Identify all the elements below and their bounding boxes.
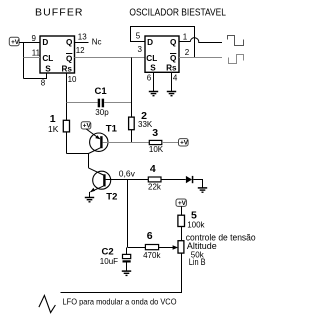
wire T1 base to 10K [103,142,150,144]
pin number 4 [173,73,178,82]
wire potentiometer bottom down and left (LFO input) [61,253,182,292]
IC U1 label Q [66,38,73,47]
svg-text:10K: 10K [149,145,164,154]
pin number 5 [136,32,141,41]
label T1 [106,123,118,134]
transistor T2 base bar [103,174,105,186]
svg-text:Q: Q [170,38,177,47]
wire U2 Qbar output (pin 2) [179,57,222,59]
ground under T2 emitter [85,198,94,202]
IC U2 label Qbar [170,54,177,64]
svg-text:Q: Q [66,38,73,47]
label C1 [95,86,108,97]
svg-text:2: 2 [185,48,190,57]
svg-text:Nc: Nc [92,37,102,46]
transistor T2 collector lead [89,168,104,175]
pin number 12 [76,46,85,55]
wire U2 Rs pin 4 to ground [171,72,173,91]
wire R2 bottom to base line [131,130,133,143]
IC U2 label Rs [166,63,177,72]
svg-text:T2: T2 [106,192,117,203]
label 50k [191,251,205,260]
title OSCILADOR BIESTAVEL [129,7,226,18]
power +V supply box (T1 emitter) [81,122,91,130]
svg-text:+V: +V [11,39,20,46]
svg-text:22k: 22k [148,183,162,192]
diode D1 [186,176,193,183]
svg-text:0,6v: 0,6v [119,168,136,178]
waveform triangle wave LFO [39,295,56,312]
pin number 9 [32,34,37,43]
svg-text:+V: +V [83,123,92,130]
svg-text:T1: T1 [106,123,118,134]
pin number 6 [147,73,152,82]
label 30p [95,108,109,117]
svg-text:30p: 30p [95,108,109,117]
svg-text:D: D [42,38,48,47]
svg-text:S: S [150,63,156,72]
svg-text:8: 8 [41,78,46,87]
svg-text:9: 9 [32,34,37,43]
capacitor C2 bottom plate [123,260,131,262]
svg-text:4: 4 [173,73,178,82]
svg-text:3: 3 [152,127,158,139]
IC U2 bistable oscillator body [145,36,179,72]
wire U1 Rs pin 10 down to R1 [66,73,68,120]
wire feedback loop U2 D (pin5) over top to Qbar line [131,27,195,58]
ground under U2 pin 6 [149,92,158,96]
svg-text:4: 4 [150,163,156,175]
pin number 2 [185,48,190,57]
wire junction to 470k [128,247,146,249]
title BUFFER [35,6,84,18]
wire 0,6v node down to C2 junction [127,180,129,248]
svg-text:470k: 470k [143,251,161,260]
potentiometer Altitude 50k body [178,241,184,253]
node Nc label [92,37,102,46]
svg-text:S: S [45,64,51,73]
wire 22k to diode [161,179,186,181]
wire +V to 100k [181,206,183,215]
wire R1 bottom to T1 collector node [67,153,89,155]
label 6 [147,230,153,242]
resistor R5 100k body [178,215,185,226]
svg-text:LFO para modular a onda do VCO: LFO para modular a onda do VCO [63,297,177,307]
wire U2 S pin 6 to ground [153,72,155,91]
wire T2 base to 22k [106,179,149,181]
svg-text:C2: C2 [102,246,114,257]
svg-text:3: 3 [138,45,143,54]
transistor T1 PNP circle [90,133,108,151]
svg-text:1: 1 [183,33,188,42]
IC U1 label Rs [62,64,73,73]
wire U1 Qbar (pin 12) to U2 CL (pin 3) [75,57,146,59]
wire 10K to +V [162,142,179,144]
label 2 [141,110,147,122]
pin number 13 [78,33,87,42]
label 0,6v [119,168,136,178]
ground under U2 pin 4 [167,92,176,96]
waveform square wave Q [228,36,244,46]
power +V supply box (right of 10K) [179,139,189,147]
label 5 [191,210,197,222]
wire 100k to potentiometer [181,227,183,241]
wire 470k to potentiometer wiper arrow [159,245,178,250]
svg-text:10: 10 [68,75,77,84]
wire U2 Q output (pin 1) with hop [179,38,222,43]
pin number 1 [183,33,188,42]
resistor R3 10K body [149,140,162,144]
label 10K [149,145,164,154]
label C2 [102,246,114,257]
capacitor C2 wire from junction [126,248,128,255]
IC U1 buffer flip-flop body [40,36,75,73]
svg-text:C1: C1 [95,86,108,97]
resistor R6 470k body [145,245,158,250]
resistor R2 33K body [129,117,135,130]
svg-text:33K: 33K [138,120,153,129]
transistor T1 collector lead [89,148,101,154]
svg-text:+V: +V [178,200,187,207]
svg-text:Q: Q [66,54,73,63]
svg-text:1K: 1K [48,124,59,134]
wire diode to ground [193,180,202,188]
label 33K [138,120,153,129]
svg-text:6: 6 [147,73,152,82]
wire R2 vertical from CL line down [131,58,133,118]
wire hook bottom to S pin [24,73,47,79]
transistor T1 emitter lead with arrow [86,129,100,139]
IC U1 label D [42,38,48,47]
label 10uF [100,257,118,266]
IC U2 label S [150,63,156,72]
resistor R4 22k body [148,177,161,182]
pin number 8 [41,78,46,87]
label 1 [50,113,56,125]
label 3 [152,127,158,139]
svg-text:CL: CL [146,54,157,63]
transistor T2 emitter lead with arrow [90,186,104,192]
svg-text:+V: +V [180,140,189,147]
label Lin B [189,257,206,267]
label controle de tensao [186,232,256,242]
label 22k [148,183,162,192]
svg-text:5: 5 [136,32,141,41]
power +V supply box (above 100k) [176,199,187,207]
svg-text:Q: Q [170,54,177,63]
capacitor C1 [98,99,104,108]
label 4 [150,163,156,175]
label T2 [106,192,117,203]
label Altitude [187,241,217,251]
waveform square wave Qbar [229,55,244,64]
wire +V to U1 pin 9 (D) [19,42,40,44]
svg-text:CL: CL [42,54,53,63]
svg-text:12: 12 [76,46,85,55]
svg-text:Rs: Rs [62,64,73,73]
IC U2 label D [147,38,153,47]
svg-text:OSCILADOR BIESTAVEL: OSCILADOR BIESTAVEL [129,7,226,18]
wire CL stub (pin 11) [24,57,41,59]
svg-text:10uF: 10uF [100,257,118,266]
capacitor C2 top plate [123,254,131,258]
label LFO para modular a onda do VCO [63,297,177,307]
wire branch to C1 left [67,102,98,104]
svg-text:Rs: Rs [166,63,177,72]
svg-text:D: D [147,38,153,47]
ground under C2 [122,271,131,275]
IC U2 label CL [146,54,157,63]
ground after diode [198,188,207,192]
IC U1 label S [45,64,51,73]
wire vertical branch down from +V line [23,43,25,79]
label 100k [187,220,205,229]
svg-text:13: 13 [78,33,87,42]
pin number 3 [138,45,143,54]
power +V supply box (left of U1) [9,37,19,46]
transistor T2 NPN circle [93,171,111,189]
IC U2 label Q [170,38,177,47]
pin number 11 [32,48,41,57]
svg-text:Lin B: Lin B [189,257,206,267]
svg-text:6: 6 [147,230,153,242]
svg-text:BUFFER: BUFFER [35,6,84,18]
label 470k [143,251,161,260]
label 1K [48,124,59,134]
resistor R1 1K body [63,120,69,132]
wire R1 bottom down [66,132,68,154]
pin number 10 [68,75,77,84]
svg-text:11: 11 [32,48,41,57]
svg-text:100k: 100k [187,220,205,229]
wire C1 right to R2 line [104,102,131,104]
IC U1 label CL [42,54,53,63]
IC U1 label Qbar [66,54,73,64]
wire T2 emitter to ground [89,192,91,197]
wire T1 collector node down to T2 collector [88,154,90,168]
wire C2 to ground [126,263,128,271]
wire U1 Q output stub (pin 13) [75,42,89,44]
transistor T1 base bar [100,136,102,148]
